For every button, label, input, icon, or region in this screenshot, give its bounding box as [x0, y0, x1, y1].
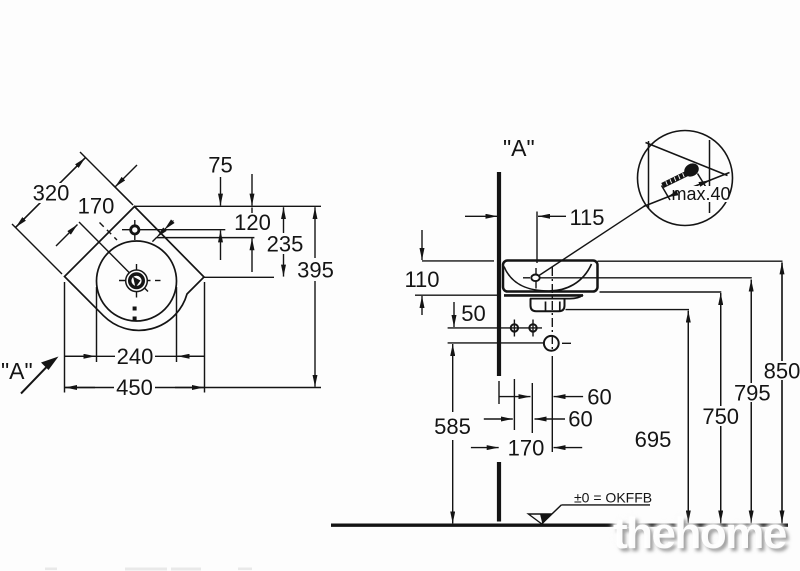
watermark — [45, 568, 252, 571]
60 row1 — [500, 396, 531, 398]
240 arrows (outside) — [65, 355, 96, 357]
screw — [663, 172, 691, 186]
svg-text:395: 395 — [297, 258, 334, 283]
svg-text:695: 695 — [635, 427, 672, 452]
110 — [421, 230, 423, 260]
svg-text:235: 235 — [267, 232, 304, 257]
text backers right view — [700, 406, 741, 426]
svg-text:110: 110 — [404, 267, 439, 292]
text backers — [115, 347, 155, 365]
long extension lines to right-side dims — [541, 261, 783, 309]
right view dimension texts — [404, 205, 800, 461]
dashed centre line — [551, 267, 553, 352]
oblique arrowheads pointing to ledge line — [157, 221, 174, 238]
170 row — [471, 447, 499, 449]
170 extension line through bowl to drain — [79, 222, 148, 292]
detail circle — [638, 131, 733, 226]
50 — [453, 302, 455, 327]
585 — [452, 344, 454, 412]
vertical extension lines — [64, 282, 66, 393]
svg-text:max.40: max.40 — [671, 184, 730, 204]
320 dimension (diagonal) — [12, 152, 133, 274]
svg-text:115: 115 — [569, 205, 604, 230]
apron under basin — [504, 294, 583, 297]
50 / 585 level lines — [448, 327, 542, 329]
faucet level line with oblique arrow — [122, 229, 225, 231]
svg-text:170: 170 — [78, 194, 115, 219]
trap cup — [531, 298, 565, 311]
svg-text:795: 795 — [734, 381, 771, 406]
datum symbol — [542, 505, 561, 524]
basin body section — [503, 261, 598, 292]
ledge level line — [157, 237, 255, 239]
svg-text:850: 850 — [764, 359, 800, 384]
110 dim extension lines — [422, 260, 494, 262]
white backers for diagonal texts — [30, 183, 73, 203]
top vertex extension line (y=206) — [135, 205, 322, 207]
drain cross ticks — [119, 280, 151, 282]
drain inner ring — [130, 274, 144, 288]
faucet hole (section) — [535, 268, 537, 289]
svg-text:750: 750 — [702, 404, 739, 429]
svg-text:"A": "A" — [1, 358, 33, 384]
svg-text:50: 50 — [461, 301, 485, 326]
right verticals with arrows — [687, 311, 689, 524]
svg-text:240: 240 — [117, 344, 154, 369]
60 row2 — [484, 418, 513, 420]
floor line — [331, 524, 788, 527]
svg-text:585: 585 — [434, 414, 471, 439]
bottom ext line y=387.5 (450 dim + 395 ext) — [65, 387, 322, 389]
hidden ledge dashed lines — [100, 223, 118, 241]
bowl profile curve — [504, 264, 592, 291]
drain outlet circle — [544, 336, 559, 351]
fixing holes — [513, 320, 515, 337]
svg-text:75: 75 — [208, 153, 232, 178]
dimension arrows right view — [422, 212, 782, 524]
plan view dimension texts — [33, 153, 334, 401]
wall line — [497, 172, 501, 376]
450 arrows (inside, pointing outward) — [65, 387, 95, 389]
waste pipe — [545, 302, 547, 312]
320 arrows point outward — [51, 158, 85, 192]
svg-text:±0 = OKFFB: ±0 = OKFFB — [574, 490, 652, 506]
170 dimension (diagonal) — [56, 165, 137, 246]
leader to detail — [539, 203, 649, 276]
fixing hole ext lines — [513, 379, 515, 430]
svg-text:450: 450 — [116, 375, 153, 400]
svg-text:320: 320 — [33, 181, 70, 206]
bowl circle — [97, 241, 177, 321]
drain inner mark — [133, 277, 141, 288]
faucet hole (plan) — [134, 220, 136, 240]
right-side vertical dimensions of plan view — [65, 174, 316, 388]
svg-text:"A": "A" — [503, 135, 535, 161]
svg-text:170: 170 — [508, 436, 545, 461]
115 — [465, 215, 498, 217]
corner washbasin outline (plan view) — [65, 207, 205, 331]
240 dim line — [65, 355, 177, 357]
overflow dots — [133, 307, 137, 311]
svg-text:60: 60 — [568, 407, 592, 432]
drain outer circle — [126, 270, 148, 292]
svg-text:120: 120 — [234, 210, 271, 235]
right vertex / drain level line — [204, 276, 274, 278]
